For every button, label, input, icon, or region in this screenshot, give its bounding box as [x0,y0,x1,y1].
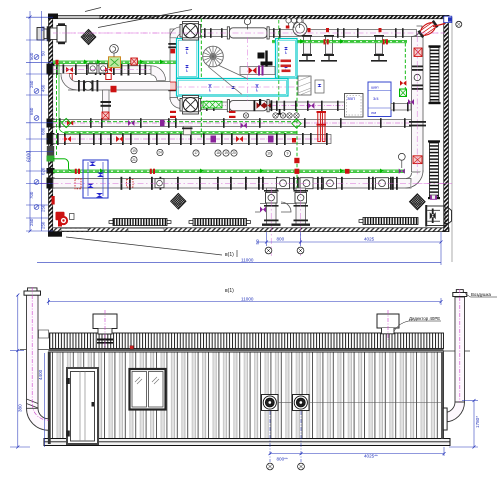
svg-text:3/4: 3/4 [373,96,379,101]
svg-text:250: 250 [40,221,45,229]
svg-text:в(1): в(1) [225,288,234,294]
svg-text:1780*: 1780* [475,416,480,428]
svg-text:19: 19 [224,151,228,155]
svg-text:680: 680 [40,127,45,135]
svg-text:11000: 11000 [241,297,254,302]
svg-text:19: 19 [132,149,136,153]
svg-text:20: 20 [232,151,236,155]
svg-text:450: 450 [40,84,45,92]
svg-text:6000: 6000 [27,151,33,162]
svg-text:ЗВП: ЗВП [347,96,355,101]
svg-text:Воздушка: Воздушка [471,292,492,297]
svg-text:21: 21 [132,158,136,162]
svg-text:250: 250 [40,204,45,212]
svg-text:9: 9 [287,152,289,156]
svg-text:в(1): в(1) [225,252,234,258]
svg-text:50: 50 [40,51,45,56]
svg-text:800**: 800** [277,457,288,462]
svg-text:швп: швп [371,85,379,90]
svg-text:50: 50 [255,239,260,245]
svg-text:4025: 4025 [364,237,375,242]
svg-text:24: 24 [158,151,162,155]
svg-text:700: 700 [29,191,34,199]
svg-text:250: 250 [29,218,34,226]
svg-text:18: 18 [216,151,220,155]
svg-text:620: 620 [40,167,45,175]
svg-text:Дидектор 40РЕ: Дидектор 40РЕ [409,316,440,321]
svg-text:500: 500 [29,52,34,60]
svg-text:4025**: 4025** [364,454,378,459]
svg-text:380: 380 [18,404,23,412]
svg-text:50: 50 [40,26,45,31]
svg-text:800: 800 [277,237,285,242]
svg-text:лм: лм [371,110,376,115]
svg-text:4400: 4400 [38,369,43,380]
svg-text:650: 650 [29,107,34,115]
svg-text:250: 250 [29,80,34,88]
svg-text:17: 17 [194,151,198,155]
svg-text:10: 10 [267,152,271,156]
svg-text:11000: 11000 [241,258,254,263]
